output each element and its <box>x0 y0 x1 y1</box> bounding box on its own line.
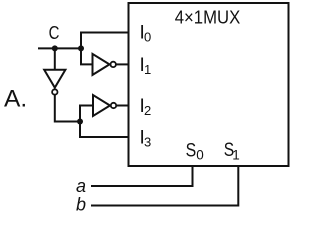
svg-text:2: 2 <box>144 103 151 118</box>
svg-text:3: 3 <box>144 135 151 150</box>
wire C horizontal <box>38 47 81 49</box>
inverter U2 bubble <box>111 62 116 67</box>
inverter U3 (to I2) triangle <box>93 95 110 116</box>
wire a to S0 <box>91 166 193 186</box>
mux box U1 4x1MUX <box>129 3 289 166</box>
svg-text:0: 0 <box>196 148 204 163</box>
svg-text:C: C <box>49 22 60 43</box>
inverter U4 (vertical, pointing down) triangle <box>44 70 65 88</box>
svg-text:b: b <box>76 195 86 215</box>
svg-text:A.: A. <box>4 85 27 112</box>
wire inverter U4 output down and right to junction <box>55 95 80 122</box>
svg-text:1: 1 <box>144 62 151 77</box>
svg-text:0: 0 <box>144 30 151 45</box>
wire C junction down to inverter U4 input <box>54 48 56 70</box>
wire junction up to inverter U3 input <box>80 106 93 122</box>
inverter U3 bubble <box>111 103 116 108</box>
wire from C junction down to inverter U2 input <box>81 48 93 64</box>
inverter U4 bubble <box>52 89 57 94</box>
svg-text:a: a <box>76 176 86 196</box>
svg-text:S: S <box>186 139 197 161</box>
svg-text:1: 1 <box>232 147 240 162</box>
wire from C junction up to I0 <box>81 33 129 49</box>
svg-text:4×1MUX: 4×1MUX <box>175 7 241 28</box>
wire inverter U2 output to I1 <box>116 63 129 65</box>
wire b to S1 <box>91 166 238 206</box>
junction dot on C wire left <box>52 45 58 51</box>
wire inverter U3 output to I2 <box>116 105 129 107</box>
inverter U2 (to I1) triangle <box>93 54 110 75</box>
junction dot on inverted-C wire <box>77 119 83 125</box>
wire junction down and right to I3 <box>80 122 129 138</box>
junction dot on C wire right <box>78 45 84 51</box>
